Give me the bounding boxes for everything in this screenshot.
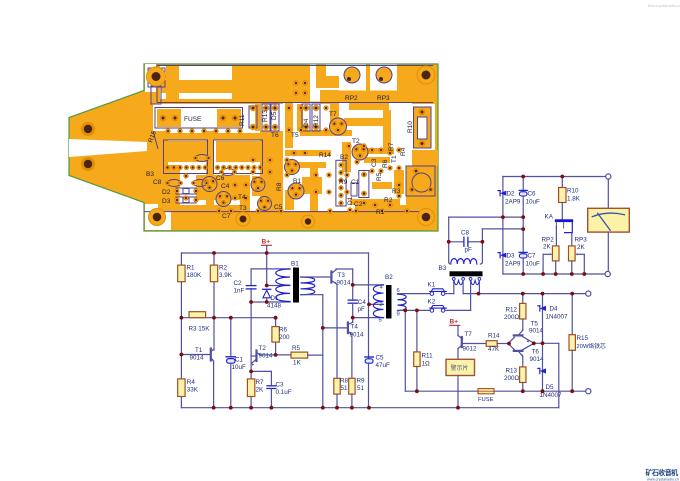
wire T4 emitter to R9: [351, 335, 353, 379]
svg-text:10uF: 10uF: [526, 261, 541, 268]
wire center tap: [267, 285, 290, 287]
svg-text:T1: T1: [195, 347, 203, 354]
wire: right vertical of loop: [368, 253, 370, 408]
svg-text:R15: R15: [577, 335, 589, 342]
svg-text:4148: 4148: [267, 303, 282, 310]
junction: [541, 341, 545, 345]
resistor R8: [334, 378, 340, 394]
wire C8 left vertical: [448, 217, 450, 262]
svg-text:5: 5: [379, 318, 382, 324]
junction: [521, 292, 525, 296]
junction: [367, 406, 371, 410]
wire: bottom ground rail: [181, 407, 558, 409]
svg-text:T2: T2: [259, 345, 267, 352]
junction: [265, 284, 269, 288]
svg-text:C5: C5: [376, 355, 385, 362]
junction: [274, 316, 278, 320]
svg-text:pF: pF: [465, 247, 473, 254]
svg-text:1nF: 1nF: [234, 288, 245, 295]
junction: [541, 292, 545, 296]
svg-text:警示片: 警示片: [451, 364, 469, 372]
wire KA bottom rail: [503, 273, 605, 275]
B1 core: [293, 268, 299, 303]
svg-text:R1: R1: [376, 209, 385, 216]
wire bottom loop: [251, 301, 290, 303]
junction: [229, 316, 233, 320]
junction: [456, 406, 460, 410]
svg-text:T3: T3: [338, 272, 346, 279]
svg-text:B3: B3: [439, 265, 447, 272]
svg-text:B2: B2: [385, 274, 393, 281]
wire T3 emitter to R8: [336, 284, 338, 378]
resistor R13: [520, 367, 526, 383]
wire R5 right: [308, 354, 323, 356]
junction: [229, 406, 233, 410]
svg-text:C6: C6: [528, 191, 537, 198]
resistor R7: [250, 371, 252, 379]
diode D1: [263, 288, 271, 290]
meter M: [607, 179, 609, 208]
svg-text:R14: R14: [488, 333, 500, 340]
junction: [274, 353, 278, 357]
resistor R4: [178, 379, 185, 397]
resistor R7: [247, 379, 254, 397]
wire B2 center tap: [369, 303, 384, 305]
svg-text:B3: B3: [146, 171, 154, 178]
wire top link: [449, 216, 524, 218]
resistor R15: [569, 335, 575, 351]
svg-text:RP2: RP2: [542, 237, 555, 244]
svg-text:1K: 1K: [293, 360, 302, 367]
buzzer element: [446, 359, 475, 375]
transistor T6: [514, 350, 523, 352]
svg-text:C1: C1: [351, 179, 360, 186]
svg-text:R14: R14: [319, 152, 331, 159]
junction: [477, 292, 481, 296]
svg-text:1N4007: 1N4007: [546, 314, 569, 321]
svg-text:C5: C5: [274, 204, 283, 211]
junction: [570, 272, 574, 276]
svg-text:T6: T6: [532, 349, 540, 356]
junction: [521, 215, 525, 219]
transformer B3 core: [450, 271, 483, 276]
junction: [521, 227, 525, 231]
junction: [532, 341, 536, 345]
wire sec right down: [478, 281, 480, 293]
capacitor C7 electrolytic: [519, 251, 527, 253]
resistor R1: [178, 265, 185, 282]
terminal: [605, 271, 610, 276]
junction: [265, 251, 269, 255]
junction: [180, 353, 184, 357]
svg-text:R4: R4: [187, 379, 196, 386]
wire C8 right up: [481, 229, 483, 242]
junction: [507, 342, 511, 346]
diode D3: [500, 253, 506, 258]
svg-text:pF: pF: [358, 306, 366, 313]
svg-text:D3: D3: [162, 198, 171, 205]
junction: [447, 240, 451, 244]
svg-text:3.9K: 3.9K: [219, 272, 233, 279]
svg-text:T5: T5: [531, 321, 539, 328]
resistor R14: [486, 341, 497, 347]
svg-text:9014: 9014: [259, 353, 274, 360]
wire KA top rail: [503, 176, 606, 178]
transistor T4: [347, 323, 349, 334]
svg-text:10uF: 10uF: [526, 199, 541, 206]
svg-text:R9: R9: [357, 378, 366, 385]
wire to RP3: [571, 233, 573, 246]
svg-text:R13: R13: [262, 110, 269, 122]
svg-text:R2: R2: [384, 197, 393, 204]
junction: [481, 240, 485, 244]
svg-text:51: 51: [341, 385, 349, 392]
resistor R13: [522, 357, 524, 367]
wire R11 column: [416, 310, 418, 352]
svg-text:200Ω: 200Ω: [504, 314, 520, 321]
svg-text:R1: R1: [187, 265, 196, 272]
svg-text:R9: R9: [339, 179, 348, 186]
svg-text:B1: B1: [291, 261, 299, 268]
wire K2 right: [445, 309, 471, 311]
diode D5: [540, 368, 546, 373]
wire: R3 row: [181, 317, 275, 319]
resistor R3: [189, 312, 206, 318]
wire amp top rail: [479, 293, 586, 295]
wire: left rail: [180, 253, 182, 408]
svg-text:R2: R2: [219, 265, 228, 272]
svg-text:2K: 2K: [577, 244, 586, 251]
svg-text:2AP9: 2AP9: [505, 261, 521, 268]
svg-text:T3: T3: [239, 205, 247, 212]
junction: [351, 316, 355, 320]
capacitor C2: [250, 269, 252, 286]
svg-text:RP3: RP3: [377, 95, 390, 102]
svg-text:R7: R7: [256, 379, 265, 386]
resistor RP3: [569, 246, 576, 261]
junction: [212, 316, 216, 320]
fuse F1: [478, 389, 494, 394]
svg-text:C3: C3: [371, 158, 378, 167]
wire T7 base row: [462, 343, 486, 345]
terminal: [586, 291, 591, 296]
svg-text:T6: T6: [271, 132, 279, 139]
transistor T7: [457, 325, 459, 335]
svg-text:T4: T4: [351, 324, 359, 331]
svg-text:D1: D1: [347, 196, 354, 205]
svg-text:200: 200: [279, 334, 290, 341]
junction: [521, 175, 525, 179]
svg-text:20W烙铁芯: 20W烙铁芯: [577, 342, 607, 350]
diode D4 column: [542, 294, 544, 392]
svg-text:C7: C7: [222, 213, 231, 220]
transformer B3 secondary right: [471, 281, 480, 285]
svg-text:1Ω: 1Ω: [422, 361, 431, 368]
svg-text:R13: R13: [506, 368, 518, 375]
svg-text:2AP9: 2AP9: [505, 199, 521, 206]
transformer B3 secondary left: [454, 281, 463, 285]
transistor T1: [181, 354, 207, 356]
junction: [570, 292, 574, 296]
svg-text:9014: 9014: [529, 328, 544, 335]
svg-text:9014: 9014: [337, 280, 352, 287]
svg-text:10uF: 10uF: [232, 364, 247, 371]
svg-text:R3 15K: R3 15K: [189, 326, 211, 333]
white routing regions: [69, 64, 435, 230]
svg-text:D3: D3: [507, 253, 516, 260]
svg-text:R12: R12: [506, 307, 518, 314]
svg-text:C7: C7: [528, 253, 537, 260]
svg-text:C2: C2: [234, 280, 243, 287]
B2 core: [386, 285, 392, 319]
svg-text:R6: R6: [382, 159, 389, 168]
diode D2: [500, 191, 506, 196]
junction: [249, 370, 253, 374]
junction: [212, 251, 216, 255]
terminal: [586, 389, 591, 394]
wire C8 right down to B3: [481, 242, 483, 262]
svg-text:C6: C6: [216, 175, 225, 182]
terminal: [606, 174, 611, 179]
capacitor C1 electrolytic: [230, 318, 232, 357]
wire sec left down: [462, 281, 464, 294]
svg-text:R5: R5: [376, 172, 383, 181]
svg-text:9012: 9012: [463, 346, 478, 353]
junction: [321, 326, 325, 330]
wire T4 base: [323, 327, 345, 329]
svg-text:C4: C4: [221, 183, 230, 190]
wire T3 collector top: [336, 268, 353, 270]
svg-text:T7: T7: [465, 331, 473, 338]
junction: [180, 316, 184, 320]
PCB board outline: [69, 64, 438, 231]
transistor T5: [514, 334, 523, 336]
junction: [367, 303, 371, 307]
junction: [541, 389, 545, 393]
svg-text:9014: 9014: [530, 356, 545, 363]
svg-text:180K: 180K: [187, 272, 203, 279]
svg-text:FUSE: FUSE: [478, 397, 494, 403]
junction: [212, 406, 216, 410]
junction: [415, 389, 419, 393]
wire R14 to bases: [497, 343, 508, 345]
wire KA left vertical: [502, 177, 504, 275]
wire fuse rail: [404, 310, 406, 391]
wire R2 column: [213, 253, 215, 265]
wire output node: [534, 342, 559, 344]
transistor T3: [330, 272, 332, 283]
svg-text:R6: R6: [279, 327, 288, 334]
svg-text:www.crystalradio.cn: www.crystalradio.cn: [647, 478, 679, 481]
wire pin6 to K1: [398, 293, 431, 295]
capacitor C4: [348, 299, 357, 301]
svg-text:R10: R10: [407, 121, 414, 133]
wire T2 collector row: [261, 354, 292, 356]
junction: [270, 406, 274, 410]
svg-text:R10: R10: [567, 188, 579, 195]
svg-text:B+: B+: [262, 239, 271, 246]
svg-text:R11: R11: [239, 114, 246, 126]
svg-text:B1: B1: [293, 178, 301, 185]
svg-text:矿石收音机: 矿石收音机: [646, 468, 679, 477]
svg-text:0.1uF: 0.1uF: [276, 389, 292, 396]
svg-text:2: 2: [380, 302, 383, 308]
junction: [249, 300, 253, 304]
svg-text:9: 9: [397, 312, 400, 318]
resistor R10: [559, 188, 566, 203]
junction: [321, 406, 325, 410]
junction: [560, 175, 564, 179]
svg-text:T1: T1: [391, 155, 398, 163]
resistor R5: [291, 352, 308, 358]
resistor R15: [571, 294, 573, 335]
wire B2 pin5: [353, 317, 384, 319]
wire B2 pin4: [353, 284, 384, 286]
wire B+ drop: [266, 245, 268, 285]
wire top of C2 to B1: [251, 268, 290, 270]
svg-text:R12: R12: [313, 115, 320, 127]
svg-text:C3: C3: [276, 382, 285, 389]
svg-text:9014: 9014: [190, 355, 205, 362]
big corner pads: [81, 66, 435, 228]
wire B1 right bottom down: [301, 294, 323, 296]
capacitor C8: [449, 241, 464, 243]
svg-text:T2: T2: [352, 138, 360, 145]
svg-text:C8: C8: [153, 179, 162, 186]
svg-text:47K: 47K: [488, 346, 500, 353]
diode D4: [540, 306, 546, 311]
junction: [521, 389, 525, 393]
resistor R10: [561, 177, 563, 188]
svg-text:47uF: 47uF: [376, 362, 391, 369]
capacitor C6 electrolytic: [519, 189, 527, 191]
junction: [582, 272, 586, 276]
capacitor C3: [251, 370, 271, 372]
PCB labels: [146, 95, 414, 220]
svg-text:C1: C1: [235, 357, 244, 364]
copper traces added back: [157, 65, 438, 212]
svg-text:51: 51: [357, 385, 365, 392]
svg-text:R8: R8: [276, 182, 283, 191]
junction: [351, 283, 355, 287]
junction: [403, 309, 407, 313]
svg-text:C4: C4: [358, 299, 367, 306]
resistor R11: [414, 352, 420, 367]
wire C6 vertical: [522, 177, 524, 275]
svg-text:R3: R3: [392, 188, 401, 195]
svg-text:D1: D1: [271, 295, 280, 302]
svg-text:FUSE: FUSE: [184, 116, 202, 123]
svg-text:2K: 2K: [543, 244, 552, 251]
svg-text:R7: R7: [388, 142, 395, 151]
transistor T2: [250, 302, 252, 371]
wire to RP2: [555, 226, 557, 246]
svg-text:C8: C8: [461, 230, 470, 237]
svg-text:R5: R5: [292, 345, 301, 352]
svg-text:33K: 33K: [187, 387, 199, 394]
svg-text:D2: D2: [162, 189, 171, 196]
junction: [501, 215, 505, 219]
svg-text:B+: B+: [450, 319, 459, 326]
silkscreen lines: [144, 66, 435, 212]
resistor R6: [272, 327, 279, 343]
junction: [350, 406, 354, 410]
resistor R2: [210, 265, 217, 282]
svg-text:D2: D2: [507, 191, 516, 198]
svg-text:bbs.crystalradio.cn: bbs.crystalradio.cn: [648, 3, 680, 8]
junction: [249, 406, 253, 410]
resistor R6: [275, 318, 277, 327]
junction: [415, 309, 419, 313]
svg-text:T7: T7: [329, 111, 337, 118]
svg-text:K2: K2: [428, 299, 436, 306]
svg-text:RP3: RP3: [575, 237, 588, 244]
small pads: [160, 81, 433, 214]
svg-text:K1: K1: [428, 282, 436, 289]
junction: [541, 272, 545, 276]
svg-text:D5: D5: [546, 384, 555, 391]
capacitor C5 electrolytic: [365, 356, 373, 358]
svg-text:2K: 2K: [256, 387, 265, 394]
wire pin9 to K2: [398, 309, 431, 311]
junction: [570, 389, 574, 393]
svg-text:B2: B2: [340, 154, 348, 161]
svg-text:200Ω: 200Ω: [504, 375, 520, 382]
svg-text:C2: C2: [354, 201, 363, 208]
svg-text:KA: KA: [545, 214, 554, 221]
junction: [554, 272, 558, 276]
svg-text:T4: T4: [238, 194, 246, 201]
svg-text:R4: R4: [400, 147, 407, 156]
svg-text:D4: D4: [550, 306, 559, 313]
junction: [265, 300, 269, 304]
wire B1 right top to T3 base: [301, 276, 328, 278]
svg-text:D4: D4: [303, 118, 310, 127]
junction: [335, 406, 339, 410]
svg-text:RP2: RP2: [345, 95, 358, 102]
wire K1 right: [445, 293, 454, 295]
resistor R12: [520, 303, 526, 319]
resistor R12: [522, 294, 524, 304]
svg-text:D5: D5: [271, 111, 278, 120]
svg-text:1.8K: 1.8K: [567, 196, 581, 203]
svg-text:R11: R11: [422, 353, 434, 360]
junction: [521, 272, 525, 276]
wire: B+ top rail: [181, 252, 368, 254]
svg-text:R8: R8: [340, 378, 349, 385]
resistor R9: [349, 378, 355, 394]
resistor RP2: [552, 246, 559, 261]
svg-text:T5: T5: [291, 132, 299, 139]
